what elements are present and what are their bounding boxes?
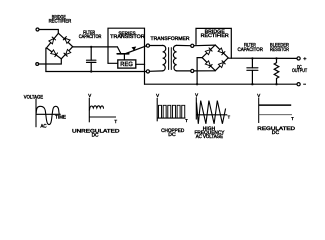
wire: BR1 positive bus to transistor collector [73, 46, 118, 48]
wire: primary-side negative bus [46, 71, 146, 73]
node: junction dot cap C1 top [90, 46, 92, 48]
wire: BR2 positive bus to output [228, 57, 297, 59]
svg-text:DC: DC [168, 132, 176, 138]
node: secondary bottom terminal circle [191, 69, 194, 72]
node: secondary top terminal circle [191, 44, 194, 47]
wire: feedback drop to minus bus [144, 64, 146, 84]
wire: minus bus to output [145, 83, 298, 85]
label: FILTER CAPACITOR (C1) [79, 30, 102, 40]
wire: secondary bottom to BR2 bottom vertex [194, 70, 215, 72]
node: junction dot cap C2 top [251, 57, 253, 59]
transistor Q1 collector bend [117, 47, 121, 54]
resistor: bleeder zigzag [274, 58, 279, 84]
label: minus sign [303, 83, 306, 85]
svg-text:V: V [257, 93, 260, 98]
transistor Q1 emitter with arrow [126, 46, 147, 54]
svg-text:VOLTAGE: VOLTAGE [24, 95, 44, 101]
wire: REG to feedback corner [136, 63, 145, 65]
label: SERIES TRANSISTOR [110, 31, 145, 40]
svg-text:AC VOLTAGE: AC VOLTAGE [196, 134, 224, 140]
svg-text:DC: DC [272, 130, 280, 136]
node: AC input terminal top [36, 28, 39, 31]
node: junction dot bleeder top [275, 57, 277, 59]
transformer T1 primary winding [163, 45, 166, 71]
svg-text:TIME: TIME [55, 114, 67, 120]
wire: box left edge to REG [108, 62, 118, 64]
svg-text:T: T [114, 119, 117, 124]
wave: regulated DC flat line [259, 104, 292, 106]
transistor Q1 base lead to REG [123, 54, 125, 60]
diode BR2 upper-right [218, 48, 225, 55]
node: junction dot bleeder bottom [275, 83, 277, 85]
bridge rectifier BR2 block box [196, 28, 231, 58]
svg-text:V: V [195, 93, 198, 98]
transformer T1 core [169, 48, 172, 70]
diode BR1 lower-left [51, 50, 58, 57]
series transistor block box [108, 28, 145, 64]
capacitor C1 top lead [90, 47, 92, 60]
svg-text:RECTIFIER: RECTIFIER [201, 33, 229, 39]
svg-text:T: T [291, 116, 294, 121]
svg-text:T: T [185, 118, 188, 123]
wire: secondary top lead [177, 44, 191, 46]
label: BRIDGE RECTIFIER (BR2) [201, 29, 229, 39]
node: output plus terminal [297, 57, 300, 60]
capacitor C2 bottom lead [251, 70, 253, 84]
capacitor C2 top lead [251, 58, 253, 67]
wire: secondary top to BR2 top vertex [194, 44, 215, 47]
wave: ripple [89, 106, 104, 111]
svg-text:CAPACITOR: CAPACITOR [238, 47, 264, 53]
wire: top AC input to bridge top vertex [39, 30, 58, 34]
svg-text:CAPACITOR: CAPACITOR [79, 34, 102, 40]
wire: BR2 left vertex to minus drop [197, 58, 202, 85]
transistor Q1 base bar [117, 53, 129, 55]
node: junction dot cap C2 bottom [251, 83, 253, 85]
node: AC input terminal bottom [36, 63, 39, 66]
capacitor C2 plates [247, 68, 258, 71]
waveform 1: AC sine [36, 99, 61, 128]
svg-text:RESISTOR: RESISTOR [270, 47, 289, 53]
svg-text:AC: AC [41, 124, 47, 130]
label: CHOPPED DC [161, 128, 185, 138]
wire: primary bottom lead [149, 70, 162, 72]
label: REGULATED DC [257, 126, 295, 136]
axis: W4 vertical [195, 97, 197, 119]
label: DC OUTPUT [292, 64, 307, 74]
diode BR2 upper-left [205, 48, 212, 55]
axis: W2 horizontal [89, 116, 116, 118]
waveform 3: chopped DC [157, 98, 185, 121]
svg-text:DC: DC [92, 132, 99, 138]
wire: BR1 negative (left vertex) drop to bottom bus [45, 48, 47, 71]
capacitor C1 plates [87, 60, 96, 62]
diode BR2 lower-left [205, 61, 212, 68]
diode BR2 lower-right [218, 61, 225, 68]
waveform 2: unregulated DC [89, 98, 116, 123]
bridge rectifier BR1 diamond [47, 33, 73, 59]
svg-text:V: V [88, 93, 91, 98]
axis: W4 horizontal [196, 114, 227, 116]
node: primary bottom terminal circle [146, 70, 149, 73]
svg-text:V: V [156, 93, 159, 98]
axis: W1 vertical [35, 99, 37, 128]
label: UNREGULATED DC [72, 128, 120, 138]
axis: W5 vertical [258, 98, 260, 123]
svg-text:T: T [228, 114, 231, 119]
axis: W3 horizontal [157, 117, 185, 119]
label: FILTER CAPACITOR (C2) [238, 43, 264, 53]
svg-text:RECTIFIER: RECTIFIER [49, 18, 72, 24]
bridge rectifier BR2 diamond [202, 45, 228, 71]
axis: W3 vertical [156, 98, 158, 121]
svg-text:+: + [303, 56, 306, 62]
label: BLEEDER RESISTOR [270, 43, 289, 53]
wave: triangle [197, 101, 226, 124]
axis: W2 vertical [88, 98, 90, 123]
diode BR1 upper-left [49, 37, 56, 44]
node: junction dot BR2 minus on bus [196, 83, 198, 85]
wave: AC sine [36, 106, 59, 124]
svg-text:REG: REG [120, 61, 133, 68]
axis: W1 horizontal [36, 113, 61, 115]
wire: secondary bottom lead [177, 70, 191, 72]
label: BRIDGE RECTIFIER (BR1) [49, 15, 72, 25]
svg-text:OUTPUT: OUTPUT [292, 68, 307, 74]
waveform 4: high frequency AC [196, 97, 227, 124]
diode BR1 upper-right [63, 37, 70, 44]
svg-text:TRANSFORMER: TRANSFORMER [151, 36, 190, 42]
capacitor C1 bottom lead [90, 62, 92, 71]
node: output minus terminal [297, 83, 300, 86]
node: emitter terminal circle [146, 44, 149, 47]
regulator box REG [118, 60, 136, 68]
diode BR1 lower-right [64, 49, 71, 56]
wire: bottom AC input to bridge bottom vertex [39, 59, 62, 64]
wire: emitter terminal to transformer primary top [150, 45, 163, 47]
svg-text:TRANSISTOR: TRANSISTOR [110, 34, 145, 40]
node: junction dot cap C1 bottom [90, 70, 92, 72]
waveform 5: regulated DC [259, 98, 292, 123]
label: HIGH FREQUENCY AC VOLTAGE [195, 126, 226, 140]
wave: chopped pulses [159, 105, 185, 118]
axis: W5 horizontal [259, 114, 292, 116]
transformer T1 secondary winding [173, 45, 176, 71]
